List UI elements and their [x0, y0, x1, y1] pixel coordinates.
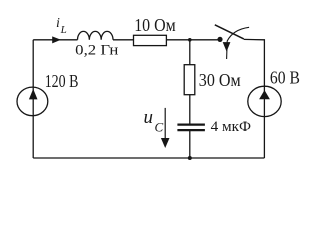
node junction top-middle — [188, 38, 192, 42]
svg-text:i: i — [56, 16, 60, 31]
switch arc arrowhead — [223, 42, 231, 52]
svg-text:30 Ом: 30 Ом — [199, 70, 241, 90]
svg-text:C: C — [155, 120, 164, 135]
source E1 arrowhead — [29, 89, 38, 100]
resistor 30 Ом — [184, 65, 195, 95]
svg-text:4 мкФ: 4 мкФ — [211, 119, 252, 135]
svg-text:u: u — [144, 107, 154, 128]
voltage arrow u_C shaft — [164, 108, 166, 140]
capacitor C 4 мкФ bottom plate — [177, 129, 205, 131]
wire top-left to inductor — [33, 39, 77, 41]
voltage source E1 120 В — [17, 87, 48, 116]
wire bottom — [33, 157, 264, 159]
switch fixed contact dot — [217, 37, 222, 42]
wire middle branch upper — [189, 40, 191, 124]
capacitor C 4 мкФ top plate — [177, 123, 205, 125]
svg-text:10 Ом: 10 Ом — [134, 15, 176, 35]
inductor L 0,2 Гн — [78, 31, 114, 39]
wire inductor to switch contact — [113, 39, 218, 41]
voltage arrow u_C head — [161, 138, 170, 148]
wire top-right and right vertical branch — [244, 39, 265, 158]
current arrow iL — [52, 36, 61, 43]
svg-text:60 В: 60 В — [270, 67, 300, 87]
source E2 arrowhead — [259, 90, 270, 99]
wire middle branch lower — [189, 131, 191, 159]
svg-text:0,2 Гн: 0,2 Гн — [75, 43, 118, 59]
wire left vertical branch — [32, 40, 34, 158]
resistor 10 Ом — [134, 35, 167, 45]
switch blade — [215, 25, 244, 39]
voltage source E2 60 В — [248, 86, 281, 116]
node junction bottom-middle — [188, 156, 192, 160]
svg-text:L: L — [60, 24, 67, 36]
switch closing motion arc — [227, 27, 250, 59]
svg-text:120 В: 120 В — [45, 71, 79, 91]
